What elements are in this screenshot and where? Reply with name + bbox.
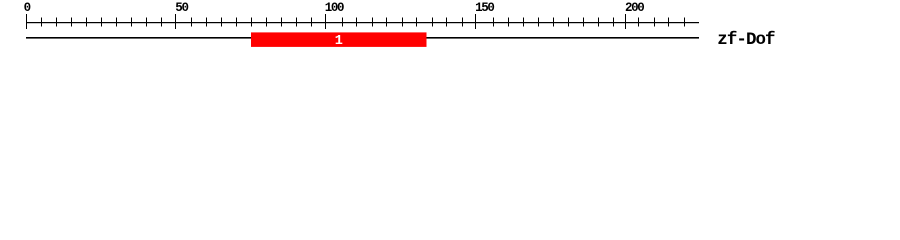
sequence line <box>26 37 699 38</box>
svg-text:zf-Dof: zf-Dof <box>717 30 775 50</box>
svg-text:150: 150 <box>475 1 494 15</box>
svg-text:200: 200 <box>625 1 644 15</box>
domain box 1 (zf-Dof) <box>251 32 427 47</box>
svg-text:100: 100 <box>325 1 344 15</box>
ruler baseline <box>26 22 699 23</box>
ruler ticks: majors every 50 aa, minors every 5 aa <box>26 14 27 29</box>
background <box>0 0 900 58</box>
svg-text:0: 0 <box>24 1 32 15</box>
svg-text:50: 50 <box>175 1 188 15</box>
svg-text:1: 1 <box>335 34 343 49</box>
